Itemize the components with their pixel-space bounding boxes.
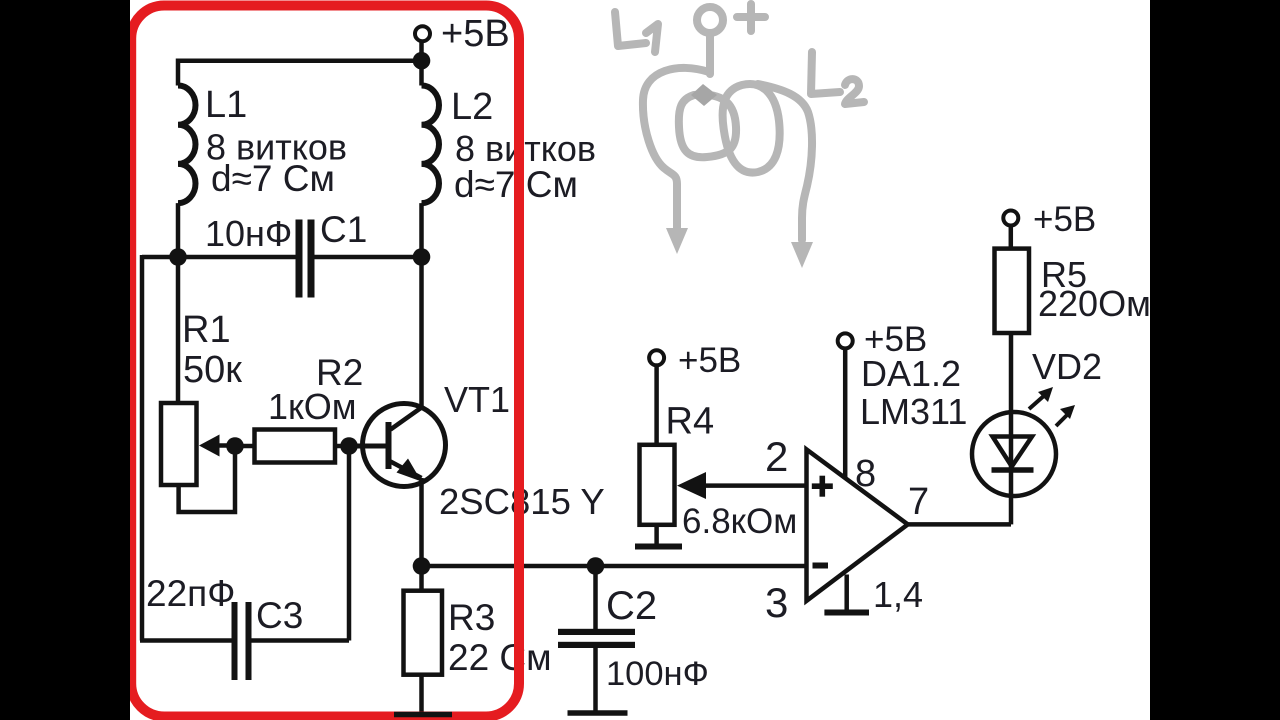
svg-text:L1: L1 (205, 84, 247, 126)
svg-text:3: 3 (765, 579, 788, 626)
svg-text:C1: C1 (320, 209, 367, 250)
svg-text:C3: C3 (256, 595, 303, 636)
svg-text:1,4: 1,4 (873, 574, 923, 615)
svg-text:VD2: VD2 (1032, 346, 1102, 387)
svg-text:R4: R4 (666, 401, 715, 443)
svg-text:1кОм: 1кОм (268, 386, 357, 427)
svg-text:+5В: +5В (1033, 200, 1096, 239)
svg-text:d≈7 См: d≈7 См (211, 158, 335, 199)
svg-text:2: 2 (765, 433, 788, 480)
svg-text:R3: R3 (448, 597, 495, 638)
svg-text:100нФ: 100нФ (606, 655, 709, 693)
svg-text:22 См: 22 См (448, 637, 552, 678)
svg-text:C2: C2 (606, 584, 657, 628)
svg-text:50к: 50к (183, 349, 242, 391)
svg-text:+5В: +5В (678, 341, 741, 380)
svg-text:8 витков: 8 витков (455, 128, 596, 169)
svg-text:7: 7 (908, 481, 929, 523)
svg-text:+5В: +5В (441, 13, 510, 55)
svg-text:R1: R1 (182, 309, 231, 351)
svg-text:8: 8 (855, 453, 876, 495)
svg-text:22пФ: 22пФ (146, 573, 235, 614)
svg-text:10нФ: 10нФ (205, 213, 292, 254)
svg-text:LM311: LM311 (860, 391, 967, 432)
svg-text:6.8кОм: 6.8кОм (682, 502, 797, 541)
svg-text:VT1: VT1 (444, 379, 510, 420)
svg-text:L2: L2 (451, 86, 493, 128)
svg-text:220Ом: 220Ом (1038, 283, 1151, 324)
svg-text:DA1.2: DA1.2 (861, 353, 961, 394)
